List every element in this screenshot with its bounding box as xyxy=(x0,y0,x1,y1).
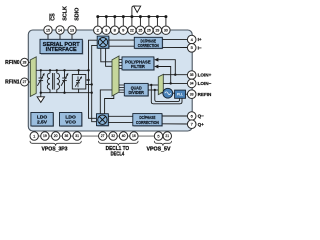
svg-text:PLL: PLL xyxy=(177,93,183,97)
svg-text:13: 13 xyxy=(70,28,74,32)
top DC/PHASE wires xyxy=(109,40,189,48)
pin 16 xyxy=(130,132,138,140)
svg-text:2.5V: 2.5V xyxy=(37,120,48,126)
bottom pins group 3 xyxy=(154,132,171,140)
svg-text:33: 33 xyxy=(190,92,194,96)
ground symbol xyxy=(40,93,42,97)
arrowheads into polyphase xyxy=(154,58,158,62)
svg-text:CORRECTION: CORRECTION xyxy=(138,43,159,48)
svg-text:16: 16 xyxy=(132,134,136,138)
svg-text:I−: I− xyxy=(198,45,202,50)
svg-text:29: 29 xyxy=(156,28,160,32)
svg-text:34: 34 xyxy=(190,82,194,86)
RF chain rails xyxy=(36,69,88,71)
svg-text:36: 36 xyxy=(65,134,69,138)
svg-text:19: 19 xyxy=(43,134,47,138)
svg-text:LOIN−: LOIN− xyxy=(198,81,212,86)
polyphase filter block xyxy=(122,57,155,71)
vertical pin labels xyxy=(50,6,81,21)
balun transformer xyxy=(47,70,59,92)
svg-text:25: 25 xyxy=(139,28,143,32)
pin 21 xyxy=(163,132,171,140)
svg-text:LDO: LDO xyxy=(65,114,76,120)
top mixer xyxy=(97,36,109,49)
svg-text:40: 40 xyxy=(122,134,126,138)
svg-text:RFIN0: RFIN0 xyxy=(5,60,20,66)
pin 30 (supply) xyxy=(162,26,170,34)
svg-text:DECL4: DECL4 xyxy=(111,151,125,157)
LDO 2.5V block xyxy=(31,113,54,127)
svg-text:26: 26 xyxy=(147,28,151,32)
svg-text:14: 14 xyxy=(58,28,62,32)
pin 5 xyxy=(154,132,162,140)
RFIN pins xyxy=(21,58,31,86)
pin 22 (supply) xyxy=(128,26,136,34)
svg-text:21: 21 xyxy=(165,134,169,138)
svg-text:SCLK: SCLK xyxy=(62,6,68,21)
LDO VCO block xyxy=(60,113,83,127)
pin 7 (Q+) xyxy=(187,120,196,129)
pin 32 xyxy=(109,132,117,140)
bottom DC/PHASE block xyxy=(133,114,163,127)
pin 40 xyxy=(119,132,127,140)
bottom pins group 2 xyxy=(99,132,139,140)
svg-text:27: 27 xyxy=(101,134,105,138)
pin 5 (I-) xyxy=(187,44,196,53)
right pin labels xyxy=(198,37,212,127)
quad divider block xyxy=(124,83,149,96)
top supply rail wire xyxy=(98,16,166,18)
serial port pin stubs xyxy=(48,34,72,39)
pin 14 (SCLK) xyxy=(56,26,64,34)
varactor 2 xyxy=(61,70,67,92)
svg-text:32: 32 xyxy=(111,134,115,138)
LO wires to top mixer xyxy=(101,48,113,66)
RF differential vertical wires xyxy=(89,40,98,122)
feedback loops xyxy=(151,85,182,104)
top DC/PHASE block xyxy=(134,37,163,49)
VCO xyxy=(161,88,173,98)
pin 4 (I+) xyxy=(187,35,196,44)
LOIN wires xyxy=(158,60,189,84)
pin 25 (supply) xyxy=(136,26,144,34)
svg-text:I+: I+ xyxy=(198,37,202,42)
svg-text:FILTER: FILTER xyxy=(131,64,145,70)
svg-text:VPOS_5V: VPOS_5V xyxy=(147,147,171,153)
quad divider to LO mux wires xyxy=(148,85,158,90)
pin 33 (REFIN) xyxy=(187,90,196,99)
pin 35 (LOIN+) xyxy=(187,71,196,80)
pin 1 xyxy=(30,132,38,140)
svg-text:CS: CS xyxy=(50,13,56,21)
varactor 1 xyxy=(37,70,43,92)
LO wires to bottom mixer xyxy=(100,90,114,114)
svg-text:LOIN+: LOIN+ xyxy=(198,73,212,78)
pin 29 (supply) xyxy=(153,26,161,34)
svg-text:22: 22 xyxy=(130,28,134,32)
pin 3 (supply) xyxy=(102,26,110,34)
top rail pin circles xyxy=(94,26,170,34)
svg-text:35: 35 xyxy=(190,73,194,77)
pin 15 (CS) xyxy=(44,26,52,34)
rail junction dots xyxy=(96,15,167,18)
bottom labels xyxy=(42,146,171,157)
junction dots RF xyxy=(40,69,93,94)
svg-text:Q−: Q− xyxy=(198,114,205,119)
pin 26 (supply) xyxy=(145,26,153,34)
pin 9 (supply) xyxy=(119,26,127,34)
pin 28 (RFIN0) xyxy=(21,58,31,66)
svg-text:INTERFACE: INTERFACE xyxy=(46,47,77,53)
svg-text:DIVIDER: DIVIDER xyxy=(128,90,144,96)
svg-text:LDO: LDO xyxy=(37,114,48,120)
svg-text:31: 31 xyxy=(75,134,79,138)
pin 27 xyxy=(99,132,107,140)
pin 31 xyxy=(73,132,81,140)
PLL block xyxy=(175,90,186,98)
pin 13 (SDIO) xyxy=(68,26,76,34)
pin 8 (supply) xyxy=(111,26,119,34)
svg-text:30: 30 xyxy=(164,28,168,32)
pin 34 (LOIN-) xyxy=(187,79,196,88)
LO select green bar xyxy=(158,74,163,94)
pin 2 (supply) xyxy=(94,26,102,34)
REFIN wire xyxy=(186,93,190,95)
pin 27 (RFIN1) xyxy=(21,78,31,86)
braces xyxy=(30,141,172,146)
pin 20 xyxy=(52,132,60,140)
pin 6 (Q-) xyxy=(187,112,196,121)
pin 36 xyxy=(62,132,70,140)
chip body xyxy=(28,30,192,131)
serial port interface block xyxy=(40,39,83,54)
svg-text:28: 28 xyxy=(23,61,27,65)
bottom DC/PHASE wires xyxy=(108,116,189,124)
svg-text:VPOS_3P3: VPOS_3P3 xyxy=(42,147,68,153)
svg-text:REFIN: REFIN xyxy=(198,92,212,97)
stubs bar to blocks xyxy=(119,60,124,93)
svg-text:27: 27 xyxy=(23,80,27,84)
supply flag xyxy=(132,6,137,17)
bottom mixer xyxy=(97,114,110,127)
svg-text:20: 20 xyxy=(54,134,58,138)
svg-text:Q+: Q+ xyxy=(198,122,205,127)
RFIN labels xyxy=(5,60,20,86)
svg-text:RFIN1: RFIN1 xyxy=(5,80,20,86)
right pins xyxy=(187,35,196,128)
svg-text:CORRECTION: CORRECTION xyxy=(136,120,160,125)
LO quadrature green bar xyxy=(112,56,119,96)
svg-text:VCO: VCO xyxy=(65,120,76,126)
RF switch green bar xyxy=(30,57,36,97)
svg-text:15: 15 xyxy=(46,28,50,32)
svg-text:SDIO: SDIO xyxy=(74,8,80,21)
pins 15 14 13 xyxy=(44,26,76,34)
tuning box xyxy=(72,70,91,92)
bottom pin chain wire xyxy=(30,135,167,137)
bottom pins group 1 xyxy=(30,132,81,140)
pin 19 xyxy=(41,132,49,140)
